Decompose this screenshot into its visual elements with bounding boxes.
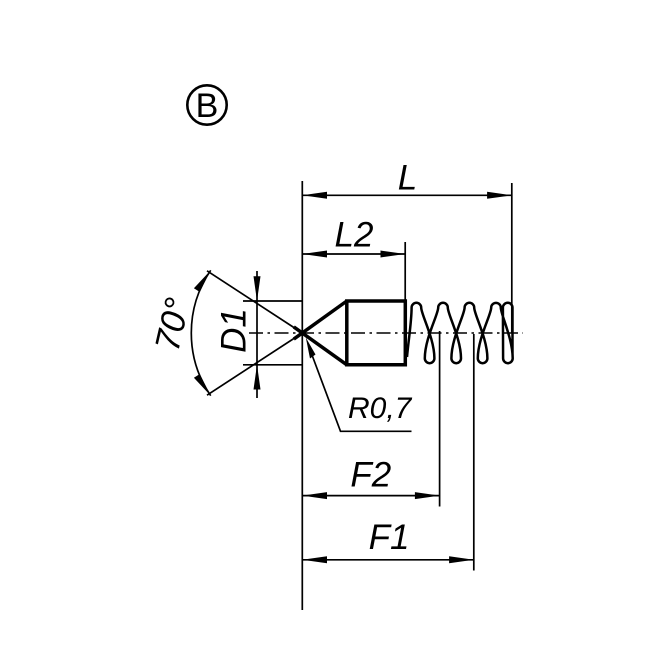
dimension F1: [302, 518, 474, 564]
dimension L: [302, 159, 512, 199]
spring: [407, 303, 513, 363]
extension line right of L2: [404, 242, 406, 301]
extension line left (shared by L, L2, F2, F1): [301, 181, 303, 610]
extension line right of F2: [439, 331, 441, 507]
cone point: [294, 301, 347, 339]
body outline: [347, 301, 406, 365]
svg-text:70°: 70°: [148, 294, 198, 354]
angle arc 70: [148, 270, 211, 395]
svg-text:F2: F2: [350, 455, 391, 494]
view label B: [187, 85, 226, 125]
svg-text:B: B: [196, 87, 219, 125]
svg-text:L: L: [398, 159, 417, 198]
svg-text:D1: D1: [215, 308, 254, 353]
svg-text:R0,7: R0,7: [348, 392, 413, 425]
extension line right of L: [511, 183, 513, 333]
dimension D1: [215, 271, 304, 398]
svg-text:L2: L2: [335, 216, 374, 255]
extension line right of F1: [473, 334, 475, 571]
leader R0,7: [306, 338, 413, 432]
centerline: [249, 332, 523, 334]
cone flank extension line upper: [207, 271, 302, 333]
dimension L2: [302, 216, 405, 258]
svg-text:F1: F1: [369, 518, 410, 557]
dimension F2: [302, 455, 439, 499]
cone flank extension line lower: [207, 333, 302, 395]
